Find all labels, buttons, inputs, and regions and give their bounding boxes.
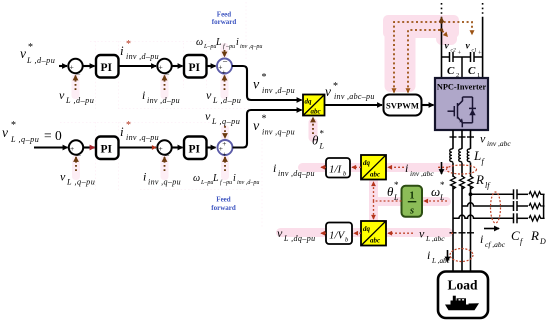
svg-text:f: f [482, 157, 486, 166]
svg-text:f: f [520, 237, 524, 246]
abc to dq transform U2 (current) [361, 155, 386, 180]
svg-text:inv ,abc: inv ,abc [410, 169, 434, 178]
svg-text:i: i [120, 43, 124, 58]
svg-text:abc: abc [311, 108, 321, 116]
summing junction S5 [157, 140, 171, 154]
measurement arrow i_L,abc [447, 250, 449, 262]
svg-text:+: + [458, 50, 462, 57]
svg-text:v: v [466, 42, 471, 52]
dc-link capacitor C1 [462, 52, 483, 62]
branch wire phase a (bottom, hops over b and c) [453, 215, 513, 218]
svg-text:inv ,q–pu: inv ,q–pu [126, 133, 159, 142]
summing junction S6 (with feed-forward) [218, 140, 233, 155]
svg-text:L–pu: L–pu [200, 180, 213, 186]
svg-text:i: i [236, 37, 239, 48]
wire into summing junction S4 [34, 146, 68, 148]
svg-text:+: + [222, 139, 226, 148]
svg-text:PI: PI [189, 62, 201, 74]
svg-text:abc: abc [370, 237, 380, 245]
svg-text:L ,d–pu: L ,d–pu [26, 56, 55, 65]
svg-text:v: v [60, 170, 66, 184]
dashed wire 1/I_b to output label [321, 166, 326, 168]
wire S2 to PI2 [172, 65, 183, 67]
dashed wire theta to U2 [373, 182, 375, 201]
svg-text:i: i [143, 170, 146, 184]
phase bus line b [461, 130, 463, 272]
svg-text:inv ,abc–pu: inv ,abc–pu [334, 92, 375, 101]
svg-text:*: * [28, 42, 33, 53]
svg-text:lf: lf [485, 181, 491, 190]
tick marks below inverter [450, 136, 475, 138]
wire S6 output to dq/abc U1 lower input [233, 110, 302, 148]
svg-text:Load: Load [447, 278, 478, 293]
diode D1 arrow [469, 109, 475, 115]
svg-text:*: * [320, 129, 325, 139]
right common wire [543, 194, 545, 218]
summing junction S2 [157, 59, 171, 73]
svg-text:v: v [206, 88, 212, 102]
IGBT Q1 with diode inside NPC block [448, 97, 473, 127]
integrator block 1/s [402, 186, 423, 217]
svg-text:−: − [165, 69, 170, 79]
svg-text:v: v [419, 227, 425, 241]
dashed wire bus to v_L,abc label [449, 232, 453, 234]
svg-text:L: L [215, 37, 222, 48]
filter resistor R_lf phase b [459, 177, 464, 187]
svg-text:v: v [2, 125, 8, 140]
svg-text:R: R [475, 172, 484, 187]
dq to abc transform U1 [303, 95, 325, 116]
highlight halo: top v_c feedback region [383, 15, 459, 92]
wire U1 to SVPWM [325, 104, 383, 106]
junction node phase c branch [469, 192, 473, 196]
measurement arrow i_inv,abc [441, 162, 443, 174]
dashed wire 1/s output to theta node [374, 200, 402, 202]
wire S3 output to dq/abc U1 upper input [232, 66, 302, 100]
svg-text:NPC-Inverter: NPC-Inverter [437, 83, 487, 92]
svg-text:ω: ω [431, 184, 440, 199]
dashed stub: v_L,d-pu into S3 bottom [224, 76, 226, 91]
svg-text:i: i [480, 232, 483, 246]
svg-text:PI: PI [101, 62, 113, 74]
svg-text:v: v [325, 84, 331, 99]
svg-text:−: − [76, 151, 81, 161]
wire PI4 to summing junction S6 [207, 146, 216, 148]
wire S4 to PI3 [83, 146, 94, 148]
svg-text:v: v [253, 78, 260, 93]
svg-text:*: * [440, 180, 445, 190]
svg-text:D: D [539, 237, 546, 246]
svg-text:forward: forward [211, 204, 236, 212]
PI controller PI2 [184, 55, 207, 78]
wire PI3 to summing junction S5 [119, 146, 157, 148]
dashed wire omega*_L into 1/s [424, 200, 447, 202]
svg-text:s: s [409, 206, 414, 217]
svg-text:θ: θ [387, 184, 394, 199]
svg-text:v: v [20, 46, 26, 61]
DC rail left (dotted top) [441, 3, 443, 17]
svg-text:1: 1 [409, 191, 414, 202]
svg-text:PI: PI [101, 144, 113, 156]
PI controller PI3 [96, 137, 119, 160]
NPC-Inverter block [435, 78, 488, 130]
svg-text:cf ,abc: cf ,abc [485, 240, 506, 249]
svg-text:v: v [277, 226, 283, 240]
svg-text:L ,q–pu: L ,q–pu [10, 135, 39, 144]
dashed stub: i_inv,q-pu into S5 bottom [164, 157, 166, 171]
wire SVPWM to NPC inverter [422, 104, 434, 106]
svg-text:forward: forward [212, 18, 237, 26]
svg-text:dq: dq [363, 159, 371, 167]
dashed stub: i_inv,d-pu into S2 bottom [164, 76, 166, 91]
svg-text:dq: dq [363, 225, 371, 233]
damping resistor R_D branch 2 [529, 203, 545, 208]
highlight halo: summing-junction stubs [72, 43, 230, 180]
svg-text:+: + [70, 144, 74, 153]
filter inductor L_f phase c [469, 149, 471, 163]
svg-text:*: * [126, 39, 131, 50]
svg-text:*: * [126, 120, 131, 131]
wire PI2 to summing junction S3 [207, 65, 216, 67]
svg-text:dq: dq [305, 98, 313, 106]
svg-text:+: + [159, 63, 163, 72]
svg-text:+: + [478, 50, 482, 57]
svg-text:C: C [468, 65, 476, 77]
svg-text:*: * [394, 180, 399, 190]
Load block [438, 272, 488, 319]
svg-text:inv ,q–pu: inv ,q–pu [240, 44, 262, 50]
wire into summing junction S1 [59, 65, 67, 67]
svg-text:i: i [427, 248, 430, 262]
svg-text:c1: c1 [472, 48, 477, 54]
svg-text:abc: abc [370, 171, 380, 179]
svg-text:*: * [262, 114, 267, 125]
svg-text:inv ,q–pu: inv ,q–pu [262, 128, 295, 137]
svg-text:inv ,q–pu: inv ,q–pu [148, 178, 181, 187]
filter capacitor C_f branch 3 [514, 213, 529, 223]
dashed feedback v_c1 to SVPWM [394, 22, 472, 92]
damping resistor R_D branch 1 [529, 192, 545, 197]
dashed wire v_L,abc to U3 [388, 232, 413, 234]
svg-text:+: + [159, 144, 163, 153]
highlight halo: mid dashed measurement network [276, 118, 453, 245]
svg-text:L ,q–pu: L ,q–pu [211, 117, 240, 126]
filter inductor L_f phase b [461, 149, 463, 163]
svg-text:v: v [480, 132, 486, 146]
svg-text:C: C [447, 65, 455, 77]
summing junction S4 [69, 140, 83, 154]
summing junction S1 [68, 59, 82, 73]
current sensor ellipse i_cf [491, 192, 501, 223]
filter inductor L_f phase a [452, 149, 454, 163]
svg-text:1/I: 1/I [329, 164, 343, 176]
dashed wire U2 to 1/I_b [352, 166, 361, 168]
svg-text:L: L [212, 173, 219, 184]
scaling block 1/I_b [326, 158, 350, 178]
svg-text:L ,d–pu: L ,d–pu [65, 96, 94, 105]
DC rail right (dotted top) [482, 3, 484, 17]
dashed stub: feedforward into S6 bottom [224, 157, 226, 171]
abc to dq transform U3 (voltage) [361, 221, 386, 246]
svg-text:Feed: Feed [216, 196, 230, 204]
scaling block 1/V_b [326, 223, 352, 245]
filter capacitor C_f branch 2 [514, 201, 529, 211]
svg-text:ω: ω [193, 173, 200, 184]
svg-text:= 0: = 0 [44, 128, 62, 143]
svg-text:L: L [319, 142, 325, 151]
wire S1 to PI1 [83, 65, 95, 67]
svg-text:inv ,d–pu: inv ,d–pu [147, 96, 180, 105]
svg-text:+: + [222, 68, 226, 77]
branch wire phase c (top) [471, 193, 514, 195]
svg-text:−: − [223, 57, 228, 67]
svg-text:*: * [333, 81, 338, 92]
v_L measurement ticks [450, 232, 475, 234]
svg-text:f –pu: f –pu [220, 179, 232, 186]
wire S5 to PI4 [172, 146, 183, 148]
svg-text:inv ,d–pu: inv ,d–pu [262, 86, 295, 95]
damping resistor R_D branch 3 [529, 216, 545, 221]
svg-text:L ,q–pu: L ,q–pu [66, 178, 95, 187]
branch wire phase b (middle, hops over c) [462, 203, 513, 206]
svg-text:R: R [530, 228, 539, 243]
svg-text:C: C [511, 228, 520, 243]
svg-text:inv ,d–pu: inv ,d–pu [126, 52, 159, 61]
measurement arrow i_cf,abc [484, 228, 499, 230]
svg-text:−: − [76, 69, 81, 79]
svg-text:SVPWM: SVPWM [386, 100, 419, 110]
wire PI1 to summing junction S2 [119, 65, 157, 67]
svg-text:L ,d–pu: L ,d–pu [212, 96, 241, 105]
dashed wire theta to U3 [373, 201, 375, 219]
svg-text:+: + [70, 63, 74, 72]
svg-text:L ,abc: L ,abc [425, 234, 445, 243]
svg-text:inv ,dq–pu: inv ,dq–pu [278, 169, 315, 178]
svg-text:inv ,d–pu: inv ,d–pu [237, 180, 259, 186]
svg-text:L–pu: L–pu [203, 44, 216, 50]
svg-text:1/V: 1/V [329, 230, 346, 242]
phase bus line c [470, 130, 472, 272]
svg-text:L ,dq–pu: L ,dq–pu [283, 234, 316, 243]
current sensor ellipse i_L [450, 249, 473, 262]
dashed stub: v_L,q-pu into S6 top [224, 126, 226, 138]
SVPWM block [384, 95, 422, 116]
dashed wire bus to U2 (i_inv,abc) [438, 166, 448, 168]
dashed wire 1/V_b to output label [321, 232, 326, 234]
svg-text:i: i [405, 161, 408, 175]
PI controller PI4 [184, 137, 207, 160]
ship icon [445, 303, 479, 310]
filter capacitor C_f branch 1 [514, 189, 529, 199]
svg-text:f –pu: f –pu [223, 43, 235, 50]
svg-text:−: − [165, 151, 170, 161]
filter resistor R_lf phase c [468, 177, 473, 187]
dashed stub: theta*_L into U1 bottom [312, 118, 314, 135]
PI controller PI1 [96, 55, 119, 78]
svg-text:i: i [142, 88, 145, 102]
dashed stub: v_L,q-pu into S4 bottom [75, 157, 77, 171]
svg-text:i: i [273, 161, 276, 175]
filter resistor R_lf phase a [450, 177, 455, 187]
junction dots on left rail [440, 20, 443, 23]
svg-text:i: i [233, 173, 236, 184]
dashed feedback v_c2 to SVPWM [408, 30, 448, 92]
svg-text:i: i [120, 124, 124, 139]
current sensor ellipse i_inv,abc [447, 165, 477, 174]
dc-link midpoint wire [461, 57, 463, 78]
svg-text:L: L [473, 148, 481, 163]
dashed stub: feedforward into S3 top [224, 50, 226, 57]
svg-text:PI: PI [189, 144, 201, 156]
svg-text:v: v [59, 88, 65, 102]
svg-text:v: v [205, 109, 211, 123]
svg-text:inv ,abc: inv ,abc [487, 139, 511, 148]
dc-link capacitor C2 [442, 52, 463, 62]
svg-text:*: * [11, 120, 16, 131]
svg-text:*: * [262, 72, 267, 83]
svg-text:c2: c2 [451, 48, 456, 54]
svg-text:θ: θ [312, 133, 319, 148]
summing junction S3 (with feed-forward) [217, 59, 232, 74]
faint scan artifacts (pink dotted) [60, 2, 262, 228]
phase bus line a [452, 130, 454, 272]
svg-text:ω: ω [196, 37, 203, 48]
dashed stub: v_L,d-pu into S1 bottom [75, 76, 77, 91]
svg-text:v: v [253, 119, 260, 134]
dashed wire U3 to 1/V_b [354, 232, 361, 234]
